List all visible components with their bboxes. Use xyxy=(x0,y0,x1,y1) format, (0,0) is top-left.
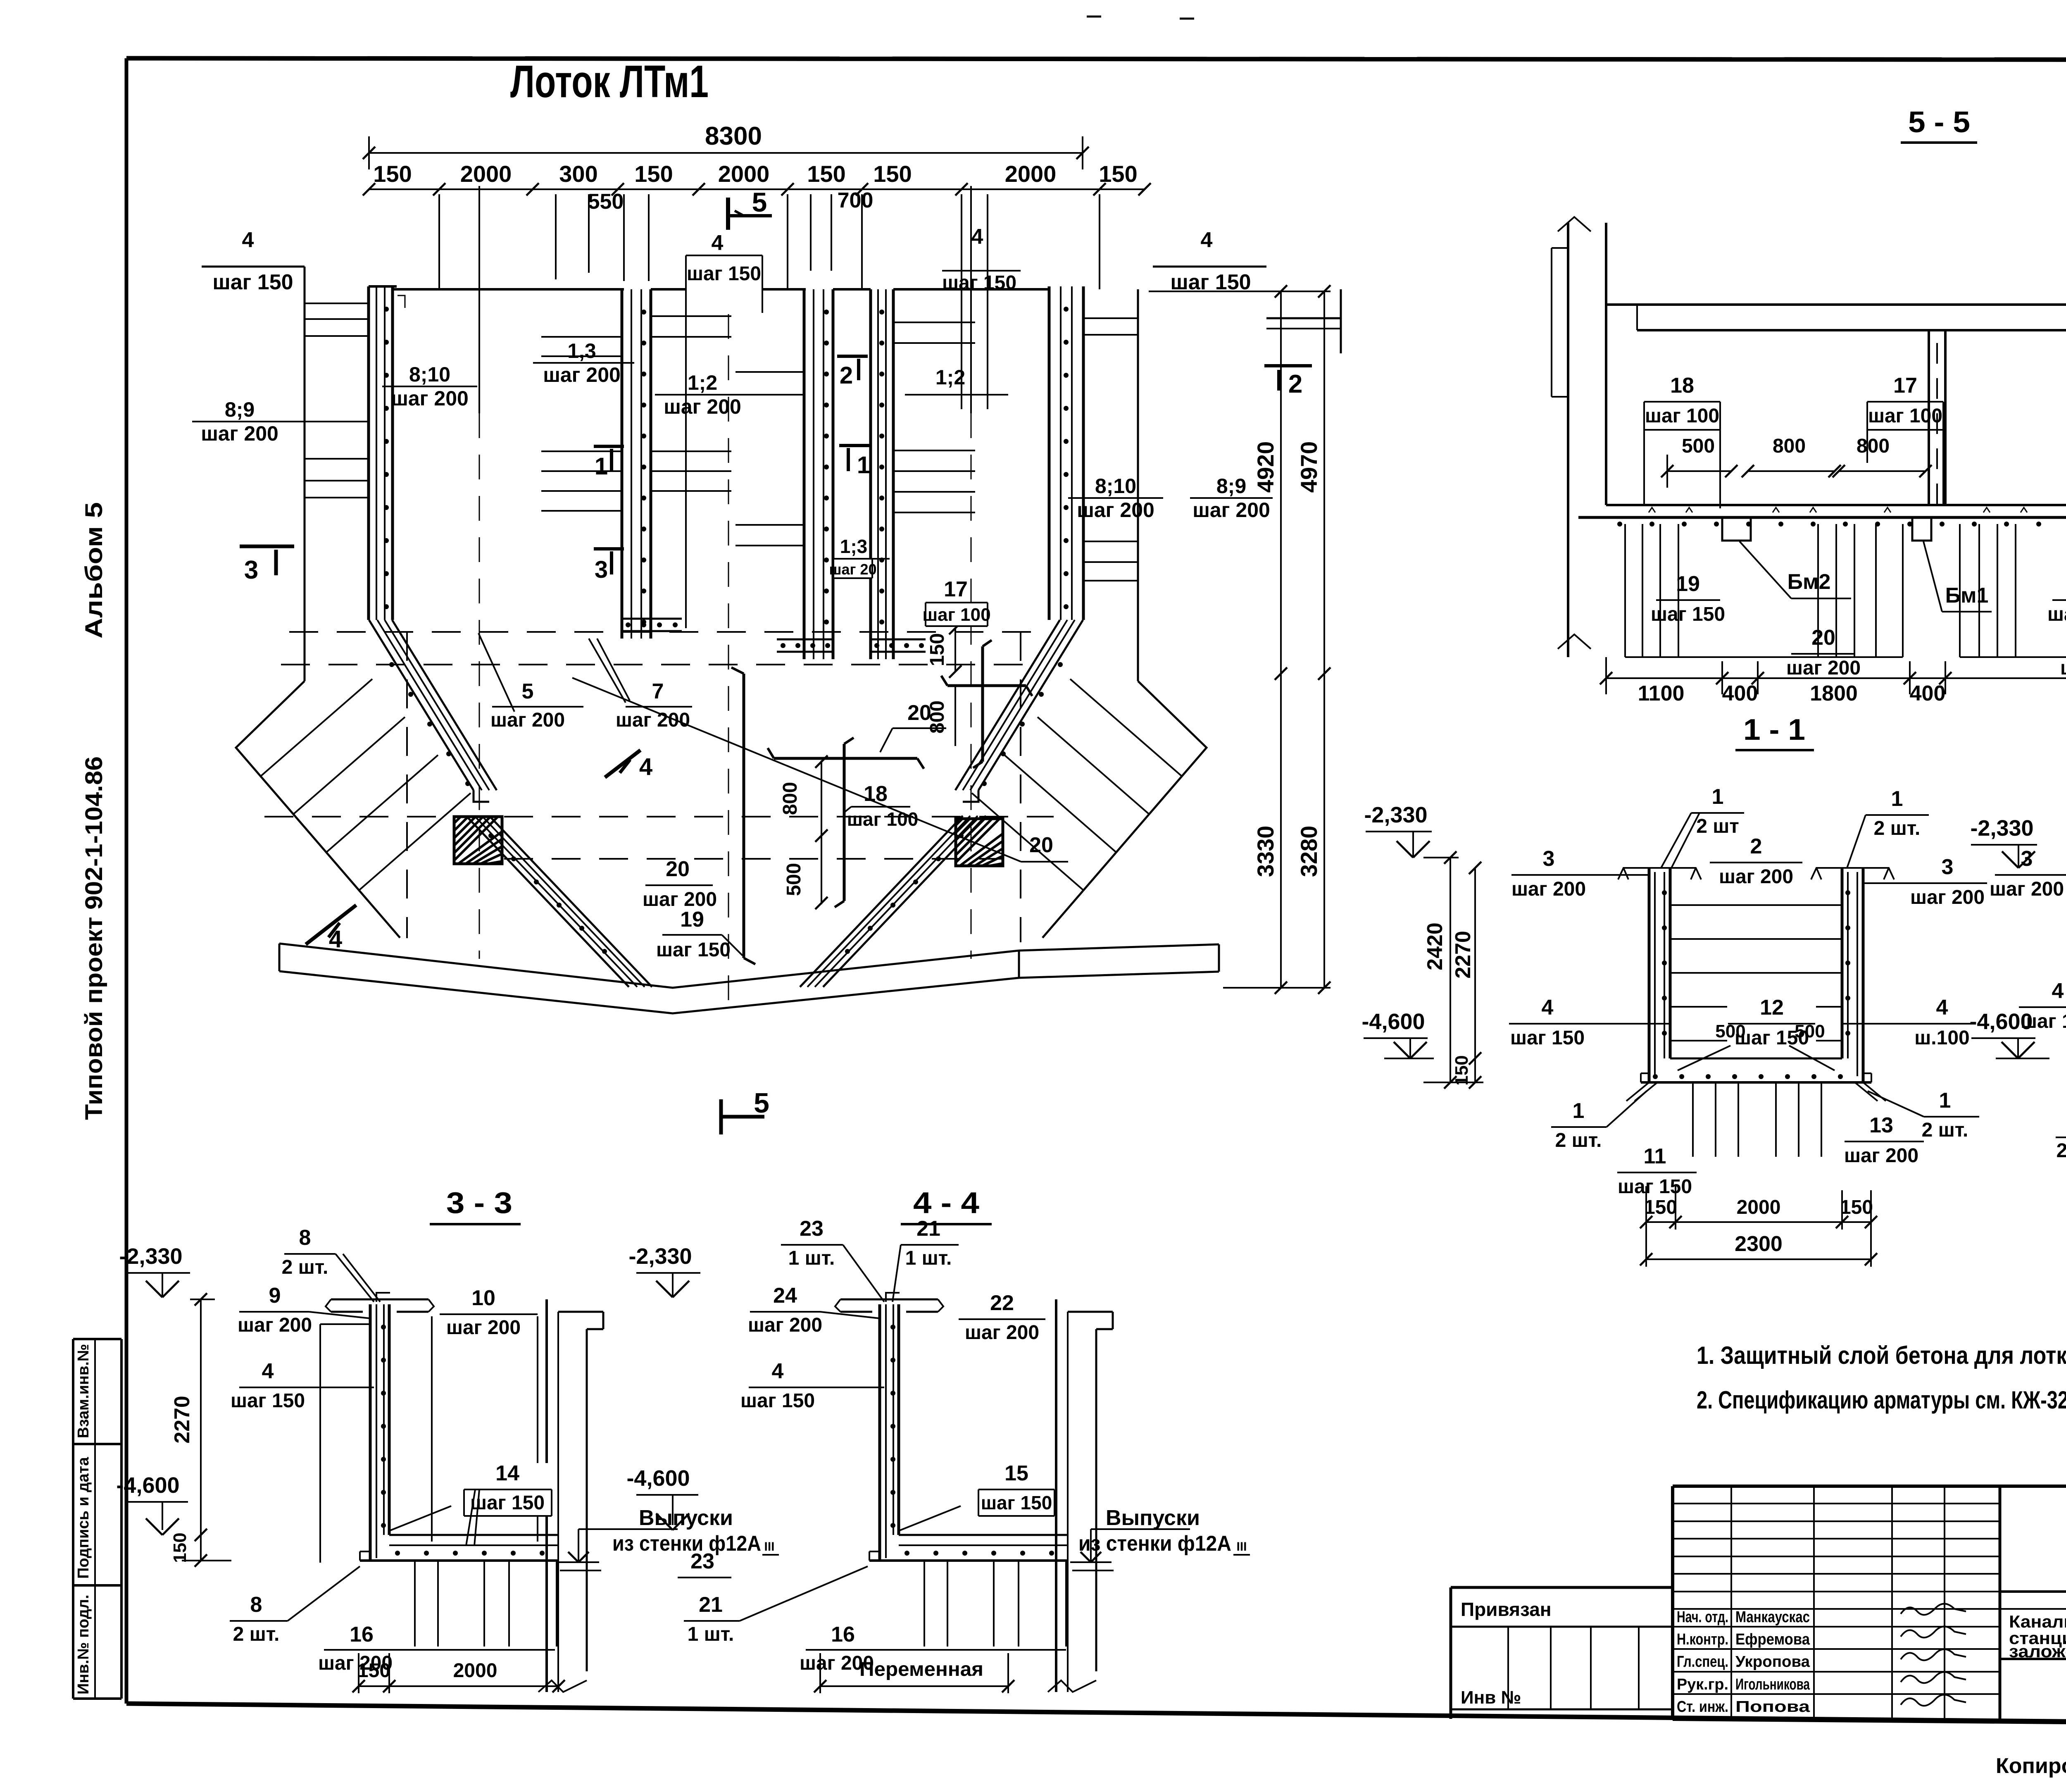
section 1-1 label 1/2шт. (top right) xyxy=(1847,787,1929,868)
label 20/шаг 200 (hopper lower) xyxy=(643,857,717,910)
section 5-5 label Бм1 xyxy=(1923,541,1992,612)
svg-text:150: 150 xyxy=(1099,161,1137,187)
plan extension lines from top dims xyxy=(439,194,1100,409)
svg-text:Рук.гр.: Рук.гр. xyxy=(1677,1676,1728,1693)
section 5-5 bottom dim line xyxy=(1600,657,2066,705)
section 4-4 top slab with break xyxy=(835,1293,943,1312)
svg-text:2420: 2420 xyxy=(1423,922,1447,970)
svg-text:шаг 150: шаг 150 xyxy=(231,1390,305,1412)
svg-text:шаг 150: шаг 150 xyxy=(1651,603,1725,625)
label 1;2/шаг 200 (lane2) xyxy=(655,371,804,418)
wall W2 (plan) xyxy=(622,289,682,639)
svg-text:шаг 200: шаг 200 xyxy=(238,1314,312,1336)
section 3-3 bottom dim 150/2000 xyxy=(352,1653,565,1693)
svg-text:4: 4 xyxy=(1936,996,1948,1020)
svg-text:1;2: 1;2 xyxy=(688,371,717,394)
svg-text:шаг 150: шаг 150 xyxy=(656,939,731,961)
svg-text:шаг 200: шаг 200 xyxy=(643,889,717,910)
section 1-1 left wall xyxy=(1649,868,1670,1082)
label 1;3/шаг 200 small (lane2 bottom) xyxy=(829,536,890,578)
section 3-3 label 16/шаг200 xyxy=(318,1623,555,1674)
svg-text:-2,330: -2,330 xyxy=(1364,803,1427,827)
section 3-3 vertical dim 2270/150 xyxy=(170,1293,231,1567)
label 18/шаг 100 (hopper) xyxy=(845,782,918,830)
right outflow channel lines (plan) xyxy=(1019,944,1219,978)
svg-text:18: 18 xyxy=(1670,374,1694,398)
svg-text:1 шт.: 1 шт. xyxy=(788,1247,835,1269)
section 5-5 top slab xyxy=(1606,305,2066,330)
svg-text:1. Защитный слой бетона для: 1. Защитный слой бетона для лотка - 15мм… xyxy=(1697,1342,2066,1369)
left tie lines between outer boundary and wall W1 xyxy=(305,303,369,498)
section 5-5 foundation right zone xyxy=(1960,524,2066,657)
svg-text:1: 1 xyxy=(1939,1089,1951,1113)
svg-text:5: 5 xyxy=(522,679,534,703)
svg-text:150: 150 xyxy=(1452,1055,1472,1085)
svg-text:шаг 200: шаг 200 xyxy=(965,1322,1039,1344)
svg-text:шаг 150: шаг 150 xyxy=(212,270,293,294)
svg-text:14: 14 xyxy=(495,1461,519,1485)
svg-text:2 шт.: 2 шт. xyxy=(282,1256,328,1278)
svg-text:шаг 150: шаг 150 xyxy=(981,1492,1052,1513)
section 5-5 pit Бм1 xyxy=(1912,517,1931,541)
title block: main outline xyxy=(1673,1486,2066,1726)
svg-text:шаг 200: шаг 200 xyxy=(446,1317,521,1339)
svg-text:8;10: 8;10 xyxy=(409,363,450,386)
dim line 150/2000/300/150/2000/150/150/2000/150 (plan) xyxy=(363,161,1151,195)
section marker 1 (lane1) xyxy=(594,446,624,480)
svg-text:-4,600: -4,600 xyxy=(1361,1009,1425,1034)
svg-text:400: 400 xyxy=(1910,682,1946,705)
label 1,3/шаг 200 xyxy=(533,339,634,386)
section 4-4 label 23 (bottom) xyxy=(678,1549,731,1578)
stamp box column (Взам.инв.№ / Подпись и дата / Инв.№ подл.) xyxy=(73,1339,121,1699)
section 1-1 label 1/2шт. (bottom left) xyxy=(1551,1091,1647,1151)
svg-text:Привязан: Привязан xyxy=(1461,1599,1552,1620)
svg-text:Н.контр.: Н.контр. xyxy=(1677,1631,1728,1648)
central vertical rebar bar 19 (plan) xyxy=(731,667,755,964)
svg-text:2270: 2270 xyxy=(170,1396,194,1444)
section 1-1 label 12/шаг150 (center) xyxy=(1727,996,1816,1049)
svg-text:500: 500 xyxy=(1795,1021,1825,1041)
section 4-4 label 21/1шт (top) xyxy=(893,1217,959,1302)
section 1-1 level -4,600 xyxy=(1361,1009,1434,1058)
title block: signatures (handwritten squiggles) xyxy=(1901,1604,1966,1706)
section 1-1 label 1/2шт (top left) xyxy=(1661,785,1744,868)
svg-text:800: 800 xyxy=(1857,435,1890,457)
svg-text:шаг 200: шаг 200 xyxy=(543,363,621,386)
lane2 top slab edge and label box 4/шаг150 xyxy=(651,231,806,628)
svg-text:1 шт.: 1 шт. xyxy=(905,1247,952,1269)
title block: TP 902-1-104.86 - КЖ xyxy=(2000,1504,2066,1609)
section 5-5 label 13/шаг 200 xyxy=(2047,572,2066,625)
section 4-4 wall xyxy=(880,1304,899,1561)
section 5-5 label 18/шаг 100 xyxy=(1644,374,1720,508)
section 4-4 label 4/шаг150 xyxy=(740,1359,884,1412)
svg-text:Взам.инв.№: Взам.инв.№ xyxy=(75,1344,92,1438)
svg-text:-4,600: -4,600 xyxy=(116,1473,179,1498)
svg-text:Манкаускас: Манкаускас xyxy=(1735,1609,1810,1626)
svg-text:2 шт.: 2 шт. xyxy=(2056,1140,2066,1162)
svg-text:23: 23 xyxy=(800,1217,824,1241)
section 1-1 label 2/шаг200 (top center) xyxy=(1710,834,1802,888)
svg-text:2 шт: 2 шт xyxy=(1696,815,1739,837)
svg-text:Нач. отд.: Нач. отд. xyxy=(1677,1609,1728,1626)
section 4-4 level -2,330 xyxy=(628,1244,700,1297)
section 5-5 dim 800 (second) xyxy=(1833,435,1932,477)
section 2-2 label 4/шаг150 (left) xyxy=(2019,979,2066,1032)
section 4-4 wall bottom rebar hooks xyxy=(893,1506,961,1537)
svg-text:2: 2 xyxy=(1288,370,1302,398)
svg-text:шаг 20: шаг 20 xyxy=(829,561,876,578)
svg-text:шаг 200: шаг 200 xyxy=(1719,866,1793,888)
svg-text:9: 9 xyxy=(269,1284,281,1308)
svg-text:Гл.спец.: Гл.спец. xyxy=(1677,1653,1728,1670)
section 5-5 label 17/шаг 100 xyxy=(1867,374,1943,505)
section 2-2 level -4,600 xyxy=(1969,1009,2049,1058)
svg-text:2300: 2300 xyxy=(1735,1232,1783,1256)
svg-text:III: III xyxy=(1236,1540,1247,1554)
label 7/шаг 200 (hopper) xyxy=(589,639,692,731)
section 4-4 right T-column xyxy=(1048,1299,1113,1692)
left outer boundary of plan xyxy=(304,267,306,681)
svg-text:20: 20 xyxy=(1029,833,1053,857)
svg-text:Бм1: Бм1 xyxy=(1945,584,1989,608)
svg-text:шаг 150: шаг 150 xyxy=(687,263,761,285)
section 2-2 level -2,330 xyxy=(1970,816,2037,868)
section marker 1 (plan, lane gap) xyxy=(839,446,870,479)
svg-text:2000: 2000 xyxy=(1737,1196,1781,1218)
svg-text:700: 700 xyxy=(838,188,874,212)
section 3-3 wall bottom rebar hooks xyxy=(384,1506,451,1537)
svg-text:Лоток ЛТм1: Лоток ЛТм1 xyxy=(510,56,709,107)
section 3-3 label 14/шаг150 boxed xyxy=(464,1461,552,1546)
svg-text:1: 1 xyxy=(1573,1099,1585,1123)
svg-text:шаг 200: шаг 200 xyxy=(2047,603,2066,625)
svg-text:3: 3 xyxy=(2021,847,2033,871)
svg-text:-2,330: -2,330 xyxy=(119,1244,182,1269)
svg-text:1800: 1800 xyxy=(1810,682,1858,705)
svg-text:шаг 150: шаг 150 xyxy=(1510,1027,1585,1049)
section 1-1 dim 500 (left) xyxy=(1670,1021,1754,1070)
white label box 17/шаг100 (plan) re-stamp xyxy=(922,603,990,626)
svg-text:24: 24 xyxy=(773,1284,797,1308)
section 3-3 label 8/2шт. (bottom) xyxy=(230,1566,360,1645)
svg-text:шаг 100: шаг 100 xyxy=(1868,405,1942,427)
svg-text:-2,330: -2,330 xyxy=(628,1244,692,1269)
svg-text:3: 3 xyxy=(1942,855,1954,879)
svg-text:Переменная: Переменная xyxy=(859,1659,983,1680)
svg-text:150: 150 xyxy=(634,161,673,187)
section 2-2 label 3/шаг200 (left) xyxy=(1990,847,2066,900)
svg-text:Копировал: Т.И.: Копировал: Т.И. xyxy=(1996,1754,2066,1778)
svg-text:шаг 200: шаг 200 xyxy=(664,395,741,418)
svg-text:шаг 150: шаг 150 xyxy=(2060,657,2066,679)
hopper dashed outline (plan) xyxy=(264,632,1054,942)
label 8;10/шаг 200 (right) xyxy=(1068,474,1163,522)
svg-text:550: 550 xyxy=(588,190,624,214)
section 1-1 left vertical dims 2420/2270/150 xyxy=(1423,851,1483,1089)
section 4-4 bottom dim Переменная xyxy=(814,1653,1014,1693)
svg-text:2: 2 xyxy=(840,362,853,389)
section 2-2 label 1/2шт. (bottom left) xyxy=(2056,1091,2066,1162)
svg-text:2 шт.: 2 шт. xyxy=(1555,1130,1602,1151)
rebar cross bar 18 (horizontal with hooks) xyxy=(768,738,924,907)
section 1-1 label 4/шаг150 (left) xyxy=(1509,996,1670,1049)
section 4-4 label 16/шаг200 xyxy=(800,1623,1066,1674)
svg-text:300: 300 xyxy=(559,161,597,187)
section 5-5 label 11/шаг 150 xyxy=(2060,626,2066,679)
label 8;9/шаг 200 (far left) xyxy=(192,398,369,445)
svg-text:8: 8 xyxy=(250,1593,262,1617)
svg-text:2 шт.: 2 шт. xyxy=(1874,817,1921,839)
svg-text:шаг 200: шаг 200 xyxy=(201,422,278,445)
in-lane horizontal rebar lines (plan) xyxy=(541,316,975,546)
svg-text:18: 18 xyxy=(864,782,888,806)
svg-text:4: 4 xyxy=(1201,228,1213,252)
svg-text:500: 500 xyxy=(1715,1021,1745,1041)
svg-text:3280: 3280 xyxy=(1296,826,1322,877)
svg-text:4: 4 xyxy=(971,225,983,249)
svg-text:4970: 4970 xyxy=(1296,441,1322,493)
svg-text:Укропова: Укропова xyxy=(1735,1653,1810,1670)
svg-text:из стенки ф12А: из стенки ф12А xyxy=(1078,1532,1231,1556)
svg-text:800: 800 xyxy=(779,782,801,815)
left margin text: Альбом 5 xyxy=(81,502,107,639)
left margin text: Типовой проект 902-1-104.86 xyxy=(81,756,107,1120)
svg-text:шаг 150: шаг 150 xyxy=(942,272,1016,294)
section 5-5 label 20/шаг 200 xyxy=(1786,626,1861,679)
section marker 3 (lane1) xyxy=(594,549,624,583)
svg-text:шаг 200: шаг 200 xyxy=(1990,878,2064,900)
svg-text:2000: 2000 xyxy=(718,161,770,187)
section 1-1 label 13/шаг200 (bottom) xyxy=(1844,1113,1924,1167)
svg-text:Ст. инж.: Ст. инж. xyxy=(1677,1698,1728,1716)
label 4/шаг150 top-left bracket xyxy=(202,228,305,294)
svg-text:150: 150 xyxy=(170,1532,190,1563)
svg-text:3 - 3: 3 - 3 xyxy=(446,1187,512,1220)
lane axis lines (plan) xyxy=(479,186,971,1004)
svg-text:Ефремова: Ефремова xyxy=(1735,1631,1810,1648)
section 1-1 right wall xyxy=(1842,868,1863,1082)
svg-text:шаг 200: шаг 200 xyxy=(1844,1145,1918,1167)
svg-text:шаг 200: шаг 200 xyxy=(490,709,565,731)
svg-text:400: 400 xyxy=(1722,682,1758,705)
section 1-1 label 1/2шт. (bottom right) xyxy=(1868,1089,1979,1141)
title block: signature names xyxy=(1677,1609,1810,1716)
section 3-3 right T-column xyxy=(538,1299,603,1692)
bottom channel strip (plan) xyxy=(279,944,1019,1013)
svg-text:шаг 200: шаг 200 xyxy=(616,709,690,731)
wall W1 (left wall, plan) xyxy=(369,286,397,620)
right diagonal rebar dots xyxy=(845,662,1063,954)
svg-text:10: 10 xyxy=(471,1286,495,1310)
section marker 4 (lower, slanted) xyxy=(306,905,356,953)
dim line 8300 (plan top) xyxy=(363,122,1089,169)
svg-text:3: 3 xyxy=(595,556,608,583)
section 3-3 wall xyxy=(370,1304,389,1561)
section 4-4 level -4,600 xyxy=(626,1466,698,1530)
svg-text:шаг 200: шаг 200 xyxy=(1910,886,1985,908)
svg-text:4920: 4920 xyxy=(1252,441,1278,493)
svg-text:1;3: 1;3 xyxy=(840,536,867,557)
svg-text:1: 1 xyxy=(595,453,608,480)
left apron stair hatch lines xyxy=(261,679,471,890)
section 4-4 label 24/шаг200 xyxy=(748,1284,880,1336)
top slab edge lane1 (plan) xyxy=(393,288,624,291)
section 1-1 floor slab xyxy=(1626,1058,1886,1101)
svg-text:шаг 200: шаг 200 xyxy=(1786,657,1861,679)
svg-text:15: 15 xyxy=(1004,1461,1028,1485)
svg-text:Инв №: Инв № xyxy=(1461,1687,1521,1708)
left hatched pad (plan) xyxy=(454,817,502,864)
svg-text:23: 23 xyxy=(690,1549,714,1573)
section 5-5 dim 800 (first) xyxy=(1742,435,1841,477)
section 4-4 label 21/1шт. (bottom) xyxy=(684,1566,868,1645)
section 3-3 label 4/шаг150 xyxy=(231,1359,374,1412)
svg-text:7: 7 xyxy=(652,679,664,703)
section marker 4 (upper, slanted) xyxy=(605,750,652,780)
svg-text:8;9: 8;9 xyxy=(225,398,255,421)
section 3-3 below-floor extension lines xyxy=(415,1561,557,1647)
right tie lines between wall W5 and outer boundary xyxy=(1083,318,1138,581)
section 3-3 label 8/2шт. (top) xyxy=(282,1226,380,1302)
svg-text:150: 150 xyxy=(1840,1196,1873,1218)
right apron wing outline (plan) xyxy=(1043,681,1207,938)
svg-text:шаг 150: шаг 150 xyxy=(2021,1010,2066,1032)
svg-text:21: 21 xyxy=(699,1593,723,1617)
svg-text:шаг 150: шаг 150 xyxy=(1618,1176,1692,1198)
svg-text:4: 4 xyxy=(1542,996,1554,1020)
section 5-5 label 19/шаг 150 xyxy=(1651,572,1725,625)
label 4/шаг150 top-right bracket xyxy=(1153,228,1266,294)
svg-text:2270: 2270 xyxy=(1451,931,1475,979)
section 4-4 label 22/шаг200 xyxy=(959,1291,1045,1344)
svg-text:шаг 200: шаг 200 xyxy=(1077,498,1154,522)
svg-text:2000: 2000 xyxy=(1005,161,1057,187)
wall W5 (right wall, plan) xyxy=(1049,286,1083,620)
svg-text:12: 12 xyxy=(1760,996,1784,1020)
svg-text:2: 2 xyxy=(1750,834,1762,858)
svg-text:2. Спецификацию арматуры см.: 2. Спецификацию арматуры см. КЖ-32 xyxy=(1697,1386,2066,1414)
svg-text:20: 20 xyxy=(666,857,690,881)
section 1-1 inner horizontal rebar lines xyxy=(1670,905,1842,1041)
svg-text:8;9: 8;9 xyxy=(1216,474,1246,498)
svg-text:5: 5 xyxy=(752,187,767,217)
lane3 top slab edge and label box 4/шаг150 xyxy=(893,225,1049,294)
section 3-3 level -2,330 xyxy=(119,1244,215,1299)
svg-text:-2,330: -2,330 xyxy=(1970,816,2033,841)
section 3-3 top slab with break xyxy=(326,1293,434,1312)
svg-text:шаг 200: шаг 200 xyxy=(748,1314,822,1336)
title block: stage/sheet table xyxy=(2000,1609,2066,1659)
svg-text:Выпуски: Выпуски xyxy=(1106,1506,1200,1530)
svg-text:4: 4 xyxy=(262,1359,274,1383)
svg-text:4: 4 xyxy=(712,231,724,255)
svg-text:1;2: 1;2 xyxy=(935,366,965,389)
svg-text:150: 150 xyxy=(1644,1196,1677,1218)
label 1;2 (lane3) xyxy=(905,366,1008,395)
svg-text:150: 150 xyxy=(373,161,412,187)
top slab line across W3-W4 gap xyxy=(833,288,871,291)
svg-text:8;10: 8;10 xyxy=(1095,474,1136,498)
label 20 (near bar 18) xyxy=(880,701,946,752)
svg-text:1 шт.: 1 шт. xyxy=(688,1623,734,1645)
wall W1 corner hook detail xyxy=(397,295,405,308)
svg-text:22: 22 xyxy=(990,1291,1014,1315)
svg-text:Попова: Попова xyxy=(1735,1698,1810,1716)
section 1-1 dim 500 (right) xyxy=(1789,1021,1842,1070)
svg-text:4: 4 xyxy=(639,753,652,780)
svg-text:5 - 5: 5 - 5 xyxy=(1908,106,1970,139)
bottom caption: Копировал xyxy=(1996,1754,2066,1778)
plan view title: Лоток ЛТм1 xyxy=(510,56,709,107)
section 1-1 bottom dims 150/2000/150 and 2300 xyxy=(1640,1186,1877,1267)
section 1-1 label 3/шаг200 (right) xyxy=(1863,855,1987,908)
right outer boundary of plan xyxy=(1137,289,1139,681)
section 1-1 title above xyxy=(1735,713,1814,750)
svg-text:шаг 200: шаг 200 xyxy=(391,387,469,410)
right hatched pad (plan) xyxy=(956,819,1003,866)
label Выпуски из стенки ф12АIII (left) xyxy=(558,1506,779,1570)
section 3-3 level -4,600 xyxy=(116,1473,188,1535)
svg-text:шаг 100: шаг 100 xyxy=(922,605,990,625)
svg-text:из стенки ф12А: из стенки ф12А xyxy=(612,1532,761,1556)
title block: signature column grid xyxy=(1673,1486,2000,1721)
vertical dim lines 4920/4970 and 3330/3280 (plan right) xyxy=(1149,285,1331,994)
svg-text:16: 16 xyxy=(831,1623,855,1647)
svg-text:-4,600: -4,600 xyxy=(626,1466,690,1491)
left apron wing outline (plan) xyxy=(236,681,400,938)
wall W3 (plan) xyxy=(777,289,833,659)
svg-text:20: 20 xyxy=(1811,626,1835,650)
svg-text:3330: 3330 xyxy=(1252,826,1278,877)
section 5-5 left wall column xyxy=(1552,217,1606,657)
note 1: Защитный слой бетона xyxy=(1697,1342,2066,1369)
rotated dim 800 (hopper right) xyxy=(926,686,955,746)
section 1-1 below-floor extension lines xyxy=(1693,1082,1821,1157)
svg-text:8: 8 xyxy=(299,1226,311,1250)
svg-text:Инв.№ подл.: Инв.№ подл. xyxy=(75,1594,92,1694)
label Т2 (plan right) xyxy=(1264,366,1312,398)
svg-text:13: 13 xyxy=(1869,1113,1893,1137)
right apron stair hatch lines xyxy=(972,679,1182,890)
svg-text:Альбом 5: Альбом 5 xyxy=(81,502,107,639)
rotated dim 800 (hopper center) xyxy=(779,755,828,909)
svg-text:800: 800 xyxy=(1773,435,1806,457)
section 1-1 label 11/шаг150 (bottom) xyxy=(1617,1144,1697,1198)
section marker 5 (top) xyxy=(728,187,772,230)
section marker 2 (plan, lane gap) xyxy=(837,356,868,389)
svg-text:1: 1 xyxy=(857,452,870,479)
label 8;9/шаг 200 (far right) xyxy=(1190,474,1273,522)
svg-text:ш.100: ш.100 xyxy=(1914,1027,1969,1049)
svg-text:150: 150 xyxy=(873,161,912,187)
section 4-4 label 23/1шт (top) xyxy=(781,1217,884,1302)
section 4-4 label 15/шаг150 boxed xyxy=(978,1461,1054,1516)
svg-text:150: 150 xyxy=(357,1660,390,1682)
svg-text:19: 19 xyxy=(680,908,704,932)
svg-text:8300: 8300 xyxy=(705,122,762,150)
section 5-5 pit Бм2 xyxy=(1722,517,1751,541)
left hopper diagonal wall band (plan) xyxy=(369,620,652,987)
far right adjacent structure outline xyxy=(1266,289,1341,353)
section 4-4 floor xyxy=(869,1535,1068,1561)
svg-text:4: 4 xyxy=(242,228,254,252)
section 5-5 title xyxy=(1901,106,1977,143)
rotated dim 150 (hopper) xyxy=(926,622,962,678)
section 5-5 middle wall xyxy=(1929,330,1945,505)
white label box шаг150 lane2 (plan) xyxy=(686,255,762,306)
